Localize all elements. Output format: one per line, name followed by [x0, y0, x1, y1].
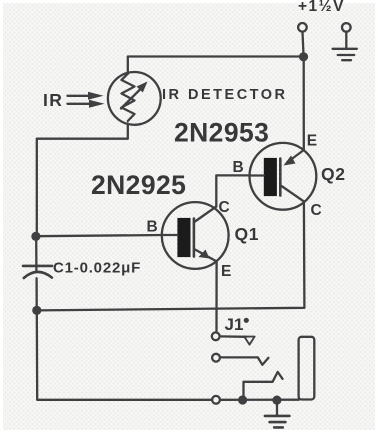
jack body rectangle	[299, 337, 315, 400]
svg-text:Q1: Q1	[235, 224, 260, 244]
svg-text:J1: J1	[225, 315, 244, 334]
jack J1 lug 2	[212, 354, 220, 362]
jack J1 lug 3 (sleeve)	[212, 396, 220, 404]
transistor Q1 (2N2925)	[162, 202, 229, 269]
terminal +1.5V	[298, 23, 307, 32]
svg-text:B: B	[147, 219, 158, 236]
IR detector photoresistor zigzag	[122, 74, 135, 122]
Q2 collector	[282, 186, 304, 201]
wire: Q1 emitter down to jack lug	[215, 261, 217, 331]
Q2 circle	[250, 143, 317, 210]
wire: IR detector top to V+ junction	[128, 57, 304, 74]
Q1 circle	[162, 202, 229, 269]
wire: left rail bottom	[37, 310, 212, 399]
Q2 base bar	[264, 158, 277, 196]
IR arrow 1	[68, 95, 90, 97]
jack tip contact	[220, 335, 246, 338]
wire: bottom rail to jack body	[220, 399, 299, 401]
Q1 collector	[195, 207, 216, 222]
svg-text:IR DETECTOR: IR DETECTOR	[162, 87, 288, 103]
svg-text:B: B	[233, 159, 244, 176]
node: junction contact-arm	[238, 395, 247, 404]
Q2 emitter	[287, 150, 304, 163]
svg-text:IR: IR	[43, 90, 63, 110]
transistor Q2 (2N2953)	[250, 143, 317, 210]
svg-text:Q2: Q2	[321, 164, 346, 184]
IR detector circle	[108, 72, 161, 125]
wire: Q1 base to left rail	[37, 235, 164, 236]
Q2 base lead	[250, 174, 264, 176]
node: junction C1 bottom / rail	[32, 306, 41, 315]
wire: Q2 emitter up to V+ junction	[303, 57, 305, 150]
node: junction ground	[272, 396, 281, 405]
ground (top right, with terminal circle)	[333, 23, 357, 60]
Q1 base bar	[177, 218, 190, 257]
node: junction V+	[299, 52, 308, 61]
Q1 emitter	[195, 250, 216, 262]
jack switch arm	[244, 372, 283, 399]
capacitor C1	[23, 236, 52, 306]
svg-text:C: C	[311, 202, 322, 219]
wire: V+ terminal to junction	[301, 32, 304, 52]
svg-text:2N2925: 2N2925	[91, 170, 186, 200]
jack contact 2	[220, 357, 268, 364]
wire: Q2 collector down and left rail	[37, 201, 305, 310]
IR arrow 2	[68, 103, 91, 105]
svg-text:+1½V: +1½V	[298, 0, 345, 15]
node: junction base/C1	[31, 232, 40, 241]
svg-text:C1-0.022μF: C1-0.022μF	[53, 260, 141, 277]
svg-text:E: E	[221, 263, 231, 280]
IR detector arrow	[121, 89, 141, 109]
ground (bottom)	[265, 400, 290, 427]
svg-text:E: E	[307, 133, 317, 150]
wire: Q1 collector up to Q2 base	[216, 175, 249, 206]
jack J1 lug 1 (tip)	[212, 332, 220, 340]
Q1 base lead	[163, 234, 177, 236]
svg-text:2N2953: 2N2953	[174, 118, 269, 148]
svg-text:C: C	[219, 199, 230, 216]
wire: IR detector bottom to left rail down	[37, 124, 128, 237]
